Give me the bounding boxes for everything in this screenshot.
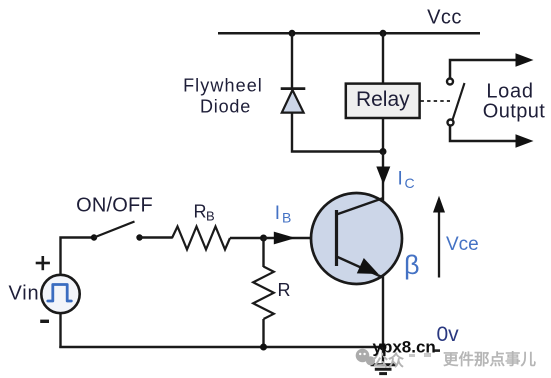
wire collector node down to transistor collector [382, 152, 384, 202]
node junction dot on Vcc rail (relay branch) [380, 30, 387, 37]
svg-text:Flywheel: Flywheel [183, 76, 263, 96]
node collector junction dot [380, 148, 387, 155]
switch SW1 ON/OFF lever [94, 222, 135, 238]
node bottom rail junction dot (emitter/ground) [380, 344, 387, 351]
wire dashed link relay to contact [421, 100, 451, 102]
pin contact terminal top (open circle) [447, 79, 453, 85]
svg-text:ypx8.cn: ypx8.cn [373, 337, 436, 356]
svg-text:I: I [398, 169, 403, 190]
wire 0v bottom rail [59, 346, 383, 349]
label RB [194, 202, 215, 224]
svg-text:ON/OFF: ON/OFF [76, 195, 153, 217]
arrow load output top arrowhead [516, 53, 534, 67]
transistor Q1 NPN body [311, 193, 402, 284]
diode D1 flywheel diode (cathode bar up, triangle pointing up) [281, 89, 306, 113]
wire from diode anode down then right to collector node [292, 112, 383, 152]
svg-text:Output: Output [483, 101, 545, 123]
symbol pulse waveform [48, 285, 72, 302]
wire emitter down to 0v rail [382, 276, 384, 348]
transistor Q1 base bar [335, 210, 338, 266]
wire base node down to R [262, 238, 264, 267]
wire load output top branch [450, 60, 517, 78]
svg-text:Diode: Diode [200, 97, 251, 117]
svg-text:B: B [282, 210, 291, 226]
svg-text:Vcc: Vcc [427, 7, 462, 29]
wire Vin bottom down to 0v rail [59, 313, 61, 348]
wire relay to collector node [382, 118, 384, 152]
wire Vcc rail [218, 32, 480, 35]
svg-text:R: R [278, 280, 291, 300]
wire R to 0v rail [262, 319, 264, 348]
svg-text:0v: 0v [437, 323, 460, 346]
arrow Vce arrow pointing up [433, 196, 445, 278]
label Ic [398, 169, 415, 192]
svg-text:Vce: Vce [446, 234, 479, 255]
arrow Ic current arrow pointing down [376, 167, 390, 185]
wire load output bottom branch [450, 126, 517, 141]
resistor R zigzag [253, 267, 274, 320]
node base junction dot [260, 235, 267, 242]
ground symbol [371, 347, 396, 374]
relay RL1 box [346, 84, 420, 118]
svg-text:R: R [194, 202, 207, 222]
wire from Vcc rail down to relay [382, 32, 384, 84]
label Flywheel Diode [183, 76, 263, 117]
svg-text:Relay: Relay [356, 88, 410, 111]
source V1 pulse source circle [41, 275, 79, 313]
node junction dot on Vcc rail (diode branch) [289, 30, 296, 37]
wire switch to RB [140, 236, 173, 238]
svg-text:I: I [275, 203, 280, 224]
wire from Vcc rail down to diode cathode [291, 32, 293, 88]
node switch throw dot [136, 234, 142, 240]
watermark faint marks [409, 353, 431, 357]
arrow emitter arrowhead [357, 258, 379, 274]
watermark logo circles [356, 349, 375, 366]
wire base node to transistor base [264, 237, 336, 239]
svg-text:Load: Load [486, 81, 533, 103]
label IB [275, 203, 292, 226]
node bottom rail junction dot (R branch) [260, 344, 267, 351]
svg-text:更件那点事儿: 更件那点事儿 [443, 350, 537, 369]
svg-text:C: C [405, 175, 415, 191]
arrow IB current arrowhead pointing right [274, 232, 296, 245]
arrow load output bottom arrowhead [516, 134, 534, 148]
resistor RB zigzag [172, 227, 230, 250]
label Load Output [483, 81, 545, 123]
pin contact terminal bottom (open circle) [448, 120, 454, 126]
svg-text:B: B [206, 209, 215, 224]
svg-text:Vin: Vin [9, 283, 40, 305]
wire from Vin top up and right to switch [61, 238, 95, 277]
transistor Q1 collector stroke [337, 198, 383, 214]
svg-text:β: β [404, 250, 420, 280]
switch lever relay contact [452, 83, 464, 121]
transistor Q1 emitter stroke [337, 257, 384, 278]
node switch pole dot [91, 234, 97, 240]
label + polarity [36, 256, 50, 270]
label - polarity [40, 320, 49, 323]
wire RB to base node [230, 237, 264, 239]
